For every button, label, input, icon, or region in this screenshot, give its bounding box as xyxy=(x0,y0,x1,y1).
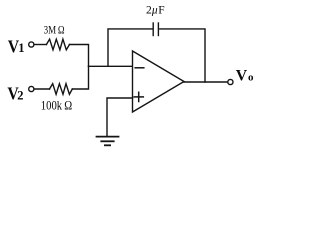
wire node A to op-amp inverting input xyxy=(89,65,133,67)
ground symbol xyxy=(97,136,119,138)
wire V1 terminal to resistor xyxy=(34,44,46,46)
svg-text:2: 2 xyxy=(17,88,23,102)
wire capacitor to output (right feedback riser) xyxy=(160,29,205,82)
resistor 3M ohm (R1 zigzag) xyxy=(46,39,69,50)
terminal Vo (output terminal circle) xyxy=(228,79,233,84)
svg-text:F: F xyxy=(158,5,164,17)
wire op-amp non-inverting input to ground xyxy=(107,98,133,136)
svg-text:3M Ω: 3M Ω xyxy=(44,22,65,36)
wire node A up to capacitor (left feedback riser) xyxy=(108,29,152,66)
wire resistor R1 to node A xyxy=(70,45,89,67)
op-amp minus sign (inverting input marker) xyxy=(135,67,144,69)
svg-text:μ: μ xyxy=(151,5,158,17)
svg-text:o: o xyxy=(248,71,254,83)
svg-text:V: V xyxy=(236,67,248,84)
svg-text:1: 1 xyxy=(18,41,24,55)
wire V2 terminal to resistor xyxy=(34,88,49,90)
op-amp plus sign (non-inverting input marker) xyxy=(134,96,143,98)
wire resistor R2 to node A xyxy=(72,66,88,89)
capacitor C1 2uF plates xyxy=(152,23,154,36)
resistor 100k ohm (R2 zigzag) xyxy=(50,84,73,95)
svg-text:100k Ω: 100k Ω xyxy=(41,99,72,113)
wire op-amp output to terminal Vo xyxy=(184,81,228,83)
terminal V2 (input terminal circle) xyxy=(29,86,34,91)
terminal V1 (input terminal circle) xyxy=(29,42,34,47)
op-amp U1 triangle xyxy=(133,51,185,112)
